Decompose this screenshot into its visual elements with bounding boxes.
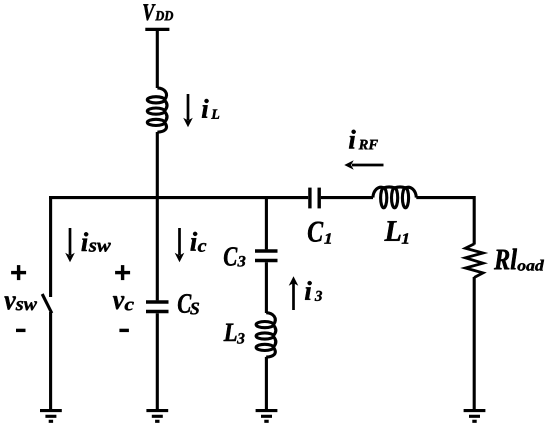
label Rload xyxy=(494,249,544,271)
label iRF xyxy=(349,130,378,150)
ground (Rload) xyxy=(464,411,486,422)
inductor choke (VDD) xyxy=(147,88,167,132)
label VDD xyxy=(143,4,173,20)
wire choke to CS xyxy=(156,132,159,300)
capacitor C3 xyxy=(255,251,278,261)
capacitor C1 xyxy=(310,188,319,209)
wire C3 branch upper xyxy=(265,196,268,249)
label minus (CS) xyxy=(119,329,128,332)
wire left branch lower xyxy=(49,312,52,411)
label L3 xyxy=(224,324,245,344)
current arrow ic xyxy=(175,228,185,262)
wire VDD to choke xyxy=(156,31,159,88)
inductor L1 xyxy=(373,187,416,208)
label ic xyxy=(191,232,207,252)
label CS xyxy=(178,294,199,314)
wire main rail xyxy=(49,196,308,199)
label vsw xyxy=(4,296,37,310)
label vc xyxy=(113,296,134,310)
wire L3 to ground xyxy=(265,357,268,411)
label plus (CS) xyxy=(115,265,130,280)
label isw xyxy=(82,232,111,251)
current arrow iL xyxy=(183,94,193,127)
label minus (switch) xyxy=(16,329,26,332)
label i3 xyxy=(305,281,322,301)
label C1 xyxy=(308,222,331,244)
label C3 xyxy=(224,247,245,266)
current arrow iRF xyxy=(344,160,383,170)
current arrow i3 xyxy=(289,276,299,310)
wire L1 to corner to Rload xyxy=(416,198,474,245)
inductor L3 xyxy=(256,313,276,357)
label L1 xyxy=(384,221,408,243)
resistor Rload xyxy=(465,244,483,278)
ground (L3) xyxy=(256,411,278,422)
label iL xyxy=(202,99,219,119)
wire C3 to L3 xyxy=(265,262,268,313)
capacitor CS xyxy=(146,302,169,312)
wire left branch upper xyxy=(49,196,52,297)
ground (CS) xyxy=(146,411,168,422)
node VDD supply bar xyxy=(145,28,169,31)
current arrow isw xyxy=(65,228,75,262)
wire Rload to ground xyxy=(473,277,476,411)
switch blade xyxy=(42,294,52,313)
label plus (switch) xyxy=(11,265,26,280)
wire C1 to L1 xyxy=(321,196,373,199)
ground (switch) xyxy=(40,411,62,422)
wire CS to ground xyxy=(156,313,159,411)
